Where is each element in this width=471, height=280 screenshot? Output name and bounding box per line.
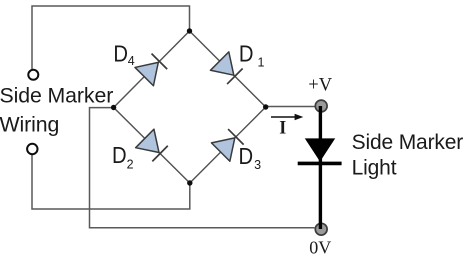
- terminal +V (gray pad): [315, 100, 327, 112]
- diode D2 (left vertex to bottom vertex): [136, 129, 170, 163]
- svg-text:D: D: [239, 40, 254, 67]
- svg-text:Light: Light: [352, 157, 397, 180]
- label D2: [112, 142, 134, 172]
- LED lead wire (thick vertical): [319, 106, 322, 229]
- current arrow I: [271, 114, 303, 120]
- svg-text:4: 4: [128, 54, 135, 68]
- node right vertex: [263, 104, 268, 109]
- svg-text:Side Marker: Side Marker: [0, 84, 113, 108]
- svg-text:2: 2: [127, 158, 134, 172]
- wire bridge edge top-to-right: [190, 31, 266, 107]
- svg-text:D: D: [113, 40, 128, 67]
- wire top loop: upper terminal to bridge top vertex: [32, 6, 190, 70]
- svg-text:1: 1: [258, 56, 265, 70]
- svg-text:+V: +V: [308, 75, 332, 95]
- terminal upper input (open circle): [28, 70, 38, 80]
- wire bridge edge bottom-to-right: [190, 107, 266, 183]
- wire bridge edge left-to-bottom: [114, 108, 190, 184]
- svg-text:0V: 0V: [309, 237, 331, 257]
- label D1: [239, 40, 265, 69]
- wire bridge edge left-to-top: [114, 31, 190, 108]
- diode D4 (left vertex to top vertex): [135, 52, 169, 86]
- terminal lower input (open circle): [27, 144, 37, 154]
- terminal 0V (gray pad): [315, 223, 327, 235]
- svg-text:D: D: [239, 143, 254, 170]
- svg-text:I: I: [279, 119, 286, 139]
- node bottom vertex: [187, 180, 192, 185]
- wire right-vertex to +V terminal: [266, 106, 315, 108]
- LED cathode bar: [298, 162, 342, 166]
- svg-text:Wiring: Wiring: [0, 113, 59, 137]
- svg-text:Side Marker: Side Marker: [352, 131, 464, 154]
- svg-text:D: D: [112, 142, 127, 169]
- wire left-vertex tap to 0V terminal: [90, 108, 315, 228]
- diode D3 (bottom vertex to right vertex): [211, 128, 245, 162]
- label D4: [113, 40, 134, 68]
- node top vertex: [187, 28, 192, 33]
- diode D1 (top vertex to right vertex): [210, 52, 244, 86]
- label D3: [239, 143, 262, 172]
- LED triangle (side marker light): [305, 138, 335, 161]
- node left vertex: [111, 105, 116, 110]
- wire lower-left loop: lower terminal to bridge bottom vertex: [32, 155, 190, 209]
- svg-text:3: 3: [254, 158, 261, 172]
